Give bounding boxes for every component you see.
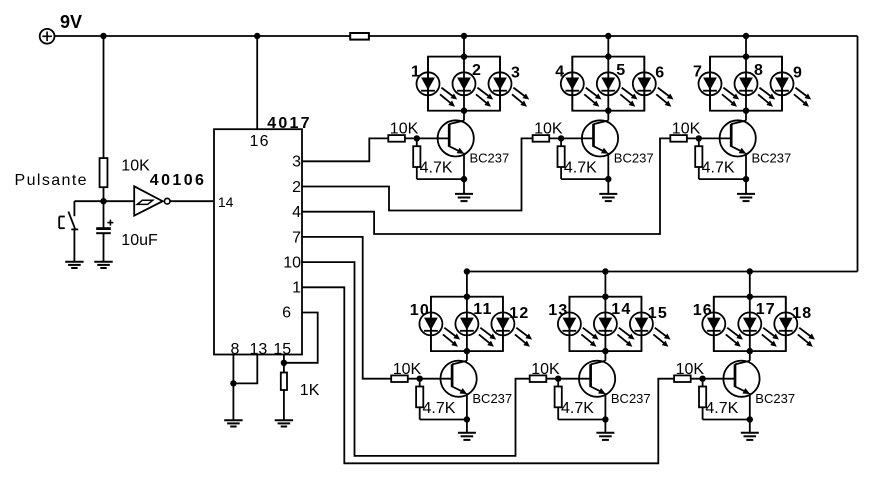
svg-text:BC237: BC237 bbox=[611, 391, 651, 406]
svg-text:BC237: BC237 bbox=[755, 391, 795, 406]
svg-text:15: 15 bbox=[648, 305, 668, 322]
svg-text:10K: 10K bbox=[121, 157, 150, 174]
svg-text:9: 9 bbox=[793, 65, 803, 82]
svg-text:7: 7 bbox=[693, 64, 703, 81]
svg-text:16: 16 bbox=[693, 302, 713, 319]
svg-text:40106: 40106 bbox=[150, 172, 207, 189]
svg-text:12: 12 bbox=[509, 305, 529, 322]
svg-text:6: 6 bbox=[655, 65, 665, 82]
svg-text:5: 5 bbox=[616, 62, 626, 79]
svg-text:16: 16 bbox=[250, 133, 270, 150]
svg-text:18: 18 bbox=[792, 305, 812, 322]
svg-text:8: 8 bbox=[754, 62, 764, 79]
svg-text:BC237: BC237 bbox=[472, 391, 512, 406]
svg-text:10K: 10K bbox=[390, 121, 419, 138]
svg-text:10K: 10K bbox=[531, 361, 560, 378]
svg-text:2: 2 bbox=[292, 179, 301, 196]
svg-text:BC237: BC237 bbox=[752, 151, 792, 166]
svg-text:4: 4 bbox=[292, 204, 301, 221]
svg-text:4017: 4017 bbox=[267, 115, 311, 132]
svg-text:13: 13 bbox=[250, 341, 268, 358]
svg-text:10uF: 10uF bbox=[121, 232, 158, 249]
svg-text:10: 10 bbox=[283, 255, 301, 272]
svg-text:10: 10 bbox=[410, 302, 430, 319]
svg-text:10K: 10K bbox=[672, 121, 701, 138]
svg-text:13: 13 bbox=[548, 302, 568, 319]
svg-text:4.7K: 4.7K bbox=[705, 400, 738, 417]
svg-text:BC237: BC237 bbox=[470, 151, 510, 166]
svg-text:Pulsante: Pulsante bbox=[15, 172, 88, 189]
svg-text:9V: 9V bbox=[60, 12, 82, 32]
svg-text:4.7K: 4.7K bbox=[561, 400, 594, 417]
svg-text:BC237: BC237 bbox=[614, 151, 654, 166]
svg-text:10K: 10K bbox=[393, 361, 422, 378]
svg-text:14: 14 bbox=[218, 194, 234, 210]
svg-text:8: 8 bbox=[230, 341, 239, 358]
svg-text:11: 11 bbox=[473, 301, 492, 318]
svg-text:3: 3 bbox=[511, 65, 521, 82]
svg-text:4.7K: 4.7K bbox=[423, 400, 456, 417]
svg-text:14: 14 bbox=[611, 301, 631, 318]
svg-text:3: 3 bbox=[292, 154, 301, 171]
svg-text:15: 15 bbox=[273, 341, 291, 358]
svg-text:1K: 1K bbox=[300, 382, 320, 399]
svg-text:2: 2 bbox=[472, 62, 482, 79]
svg-text:4.7K: 4.7K bbox=[420, 160, 453, 177]
svg-text:1: 1 bbox=[411, 64, 421, 81]
svg-text:4.7K: 4.7K bbox=[564, 160, 597, 177]
svg-text:17: 17 bbox=[756, 301, 776, 318]
svg-text:4: 4 bbox=[555, 64, 565, 81]
svg-text:6: 6 bbox=[282, 305, 291, 322]
svg-text:7: 7 bbox=[292, 229, 301, 246]
svg-text:1: 1 bbox=[292, 280, 301, 297]
svg-text:10K: 10K bbox=[534, 121, 563, 138]
svg-text:10K: 10K bbox=[676, 361, 705, 378]
svg-text:4.7K: 4.7K bbox=[702, 160, 735, 177]
